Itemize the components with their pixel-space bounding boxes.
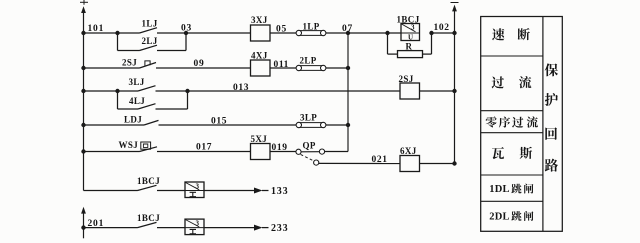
- connection link 3LP: [296, 112, 326, 127]
- positive source arrow bottom row: [81, 207, 86, 239]
- wire 1BCJ to node 102: [432, 23, 455, 33]
- wire bus to 2SJ contact: [84, 67, 140, 69]
- wire node101 to parallel contacts: [84, 32, 118, 34]
- wire bus to parallel contacts 3LJ/4LJ: [84, 90, 118, 92]
- table row label: su duan (instantaneous trip): [492, 28, 530, 40]
- svg-text:3: 3: [196, 182, 200, 190]
- svg-text:U: U: [408, 33, 413, 41]
- svg-text:233: 233: [271, 223, 288, 234]
- wire 2LP to mid vertical net: [326, 67, 348, 69]
- svg-text:1DL: 1DL: [489, 184, 509, 195]
- relay coil 3XJ: [251, 15, 271, 41]
- junction on - bus row 5: [452, 161, 456, 165]
- table row label: 1DL trip: [489, 184, 533, 195]
- relay coil 5XJ: [251, 134, 271, 160]
- svg-text:2DL: 2DL: [489, 212, 509, 223]
- wire QP lower throw to terminal 021 to relay 6XJ: [319, 155, 400, 165]
- switching plate QP common terminal: [296, 141, 316, 155]
- table column label: bao hu hui lu (protection circuit), vertical: [545, 63, 558, 171]
- wire 2SJ coil to - bus: [420, 90, 455, 92]
- node 101 on + bus: [81, 24, 104, 35]
- contact 2SJ (time relay, delayed-close NO): [122, 57, 156, 68]
- svg-text:05: 05: [276, 25, 287, 35]
- contact 3LJ (current relay 3, NO): [118, 77, 188, 91]
- svg-text:3XJ: 3XJ: [251, 15, 268, 25]
- node 03: [181, 23, 192, 35]
- signal relay box 3/I row 6: [185, 182, 204, 198]
- positive DC bus (+) left vertical: [80, 0, 88, 191]
- svg-text:2LJ: 2LJ: [142, 36, 158, 46]
- svg-text:09: 09: [194, 59, 205, 69]
- svg-text:2SJ: 2SJ: [122, 57, 137, 67]
- wire to output arrow 233: [204, 227, 255, 229]
- junction on - bus row 3: [452, 89, 456, 93]
- node on + bus row 5: [81, 149, 85, 153]
- wire 2SJ to terminal 09 to relay 4XJ: [156, 59, 251, 69]
- contact LDJ (zero-sequence overcurrent relay, NO): [124, 114, 159, 125]
- node 102 on - bus: [452, 31, 456, 35]
- svg-text:019: 019: [272, 143, 288, 153]
- contact 4LJ (current relay 4, NO) parallel branch: [118, 91, 188, 109]
- svg-text:3LP: 3LP: [300, 112, 317, 122]
- mid vertical net 07-QP: [347, 33, 349, 152]
- connection link 1LP: [296, 21, 326, 35]
- svg-text:011: 011: [274, 60, 290, 70]
- svg-text:2LP: 2LP: [300, 55, 317, 65]
- svg-text:2SJ: 2SJ: [399, 74, 414, 84]
- impulse signal relay 1BCJ (flag box, 3/U): [397, 14, 420, 41]
- contact 1BCJ (impulse relay contact, NO): [137, 176, 185, 191]
- node 07 junction: [342, 24, 353, 35]
- table row label: 2DL trip: [489, 211, 533, 222]
- svg-text:R: R: [406, 41, 413, 51]
- contact 1BCJ (impulse relay contact, NO) row 7: [137, 213, 185, 228]
- node on + bus row 3: [81, 89, 85, 93]
- svg-text:LDJ: LDJ: [124, 114, 142, 124]
- junction right of 3LJ/4LJ, terminal 013: [185, 83, 249, 93]
- svg-text:102: 102: [434, 23, 450, 33]
- junction on mid vertical net row 4: [346, 123, 350, 127]
- svg-text:015: 015: [211, 116, 227, 126]
- wire + bus corner to 1BCJ contact row 6: [84, 190, 138, 192]
- svg-text:6XJ: 6XJ: [400, 146, 417, 156]
- wire 3XJ to terminal 05 to link 1LP: [270, 25, 296, 35]
- wire 6XJ to - bus: [420, 163, 455, 165]
- junction right of 1BCJ: [429, 31, 433, 35]
- QP upper throw terminal: [319, 149, 324, 154]
- junction left of 1LJ/2LJ parallel group: [115, 31, 119, 35]
- svg-text:5XJ: 5XJ: [251, 134, 268, 144]
- wire to output arrow 133: [204, 190, 255, 192]
- table row label: ling xu guo liu (zero-sequence overcurrent): [486, 116, 538, 127]
- wire bus to WSJ contact: [84, 151, 140, 153]
- contact 2LJ (current relay 2, NO) parallel branch: [118, 33, 187, 51]
- time relay coil 2SJ: [399, 74, 420, 99]
- svg-text:1BCJ: 1BCJ: [137, 176, 160, 186]
- connection link 2LP: [296, 55, 326, 70]
- wire node 07 to 1BCJ relay branch: [348, 32, 401, 34]
- relay coil 6XJ: [400, 146, 420, 172]
- negative DC bus (-) right vertical: [451, 3, 459, 166]
- output arrow and terminal 133: [254, 186, 288, 197]
- svg-text:1LP: 1LP: [303, 21, 320, 31]
- junction left of 1BCJ / R parallel: [385, 31, 389, 35]
- wire 3LP to mid vertical net: [326, 124, 348, 126]
- wire node 03 to relay 3XJ: [186, 32, 251, 34]
- svg-text:1BCJ: 1BCJ: [397, 14, 420, 24]
- svg-text:4XJ: 4XJ: [251, 50, 268, 60]
- wire LDJ to terminal 015 to link 3LP: [159, 116, 297, 126]
- output arrow and terminal 233: [254, 223, 288, 234]
- wire 1LP to node 07: [326, 32, 348, 34]
- QP blade to upper throw: [301, 151, 319, 153]
- svg-text:WSJ: WSJ: [119, 140, 139, 150]
- wire bus to LDJ contact: [84, 124, 145, 126]
- function table frame: [481, 17, 563, 232]
- relay coil 4XJ: [251, 50, 271, 76]
- junction on mid vertical net row 2: [346, 66, 350, 70]
- wire 4XJ to terminal 011 to link 2LP: [270, 60, 296, 70]
- junction left of 3LJ/4LJ group: [115, 89, 119, 93]
- svg-text:3: 3: [411, 24, 415, 32]
- table row label: wa si (gas protection): [492, 147, 532, 159]
- QP alternate position (dashed): [301, 154, 314, 161]
- svg-text:QP: QP: [303, 141, 316, 151]
- QP lower throw terminal: [314, 160, 319, 165]
- wire node 201 to 1BCJ contact row 7: [84, 227, 138, 229]
- resistor R parallel with 1BCJ: [388, 33, 432, 58]
- svg-text:021: 021: [372, 155, 388, 165]
- wire QP upper throw to mid vertical net: [325, 151, 348, 153]
- wire WSJ to terminal 017 to relay 5XJ: [157, 143, 251, 153]
- signal relay box 3/I row 7: [185, 219, 204, 235]
- svg-text:1BCJ: 1BCJ: [137, 213, 160, 223]
- wire 5XJ to terminal 019 to switch plate QP: [270, 143, 296, 153]
- contact 1LJ (current relay 1, NO): [118, 19, 187, 34]
- contact WSJ (gas/Buchholz relay with float symbol): [119, 140, 158, 151]
- svg-text:3LJ: 3LJ: [129, 77, 145, 87]
- table row label: guo liu (overcurrent): [492, 76, 532, 88]
- node on + bus row 2: [81, 66, 85, 70]
- wire 013 to time relay 2SJ coil: [188, 90, 401, 92]
- node on + bus row 4: [81, 123, 85, 127]
- node 201: [81, 219, 104, 230]
- svg-text:3: 3: [196, 219, 200, 227]
- svg-text:03: 03: [181, 23, 192, 33]
- svg-text:1LJ: 1LJ: [142, 19, 158, 29]
- svg-text:133: 133: [271, 186, 288, 197]
- svg-text:4LJ: 4LJ: [129, 96, 145, 106]
- svg-text:017: 017: [196, 143, 212, 153]
